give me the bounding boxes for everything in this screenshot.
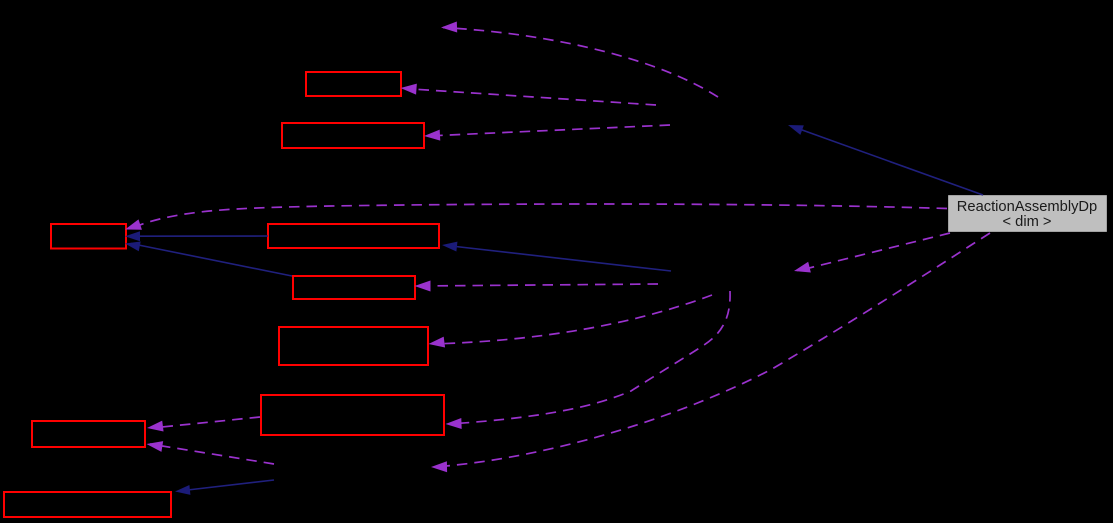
svg-text:< dim >: < dim > xyxy=(1003,214,1052,230)
svg-text:ReactionAssemblyDp: ReactionAssemblyDp xyxy=(957,199,1097,215)
